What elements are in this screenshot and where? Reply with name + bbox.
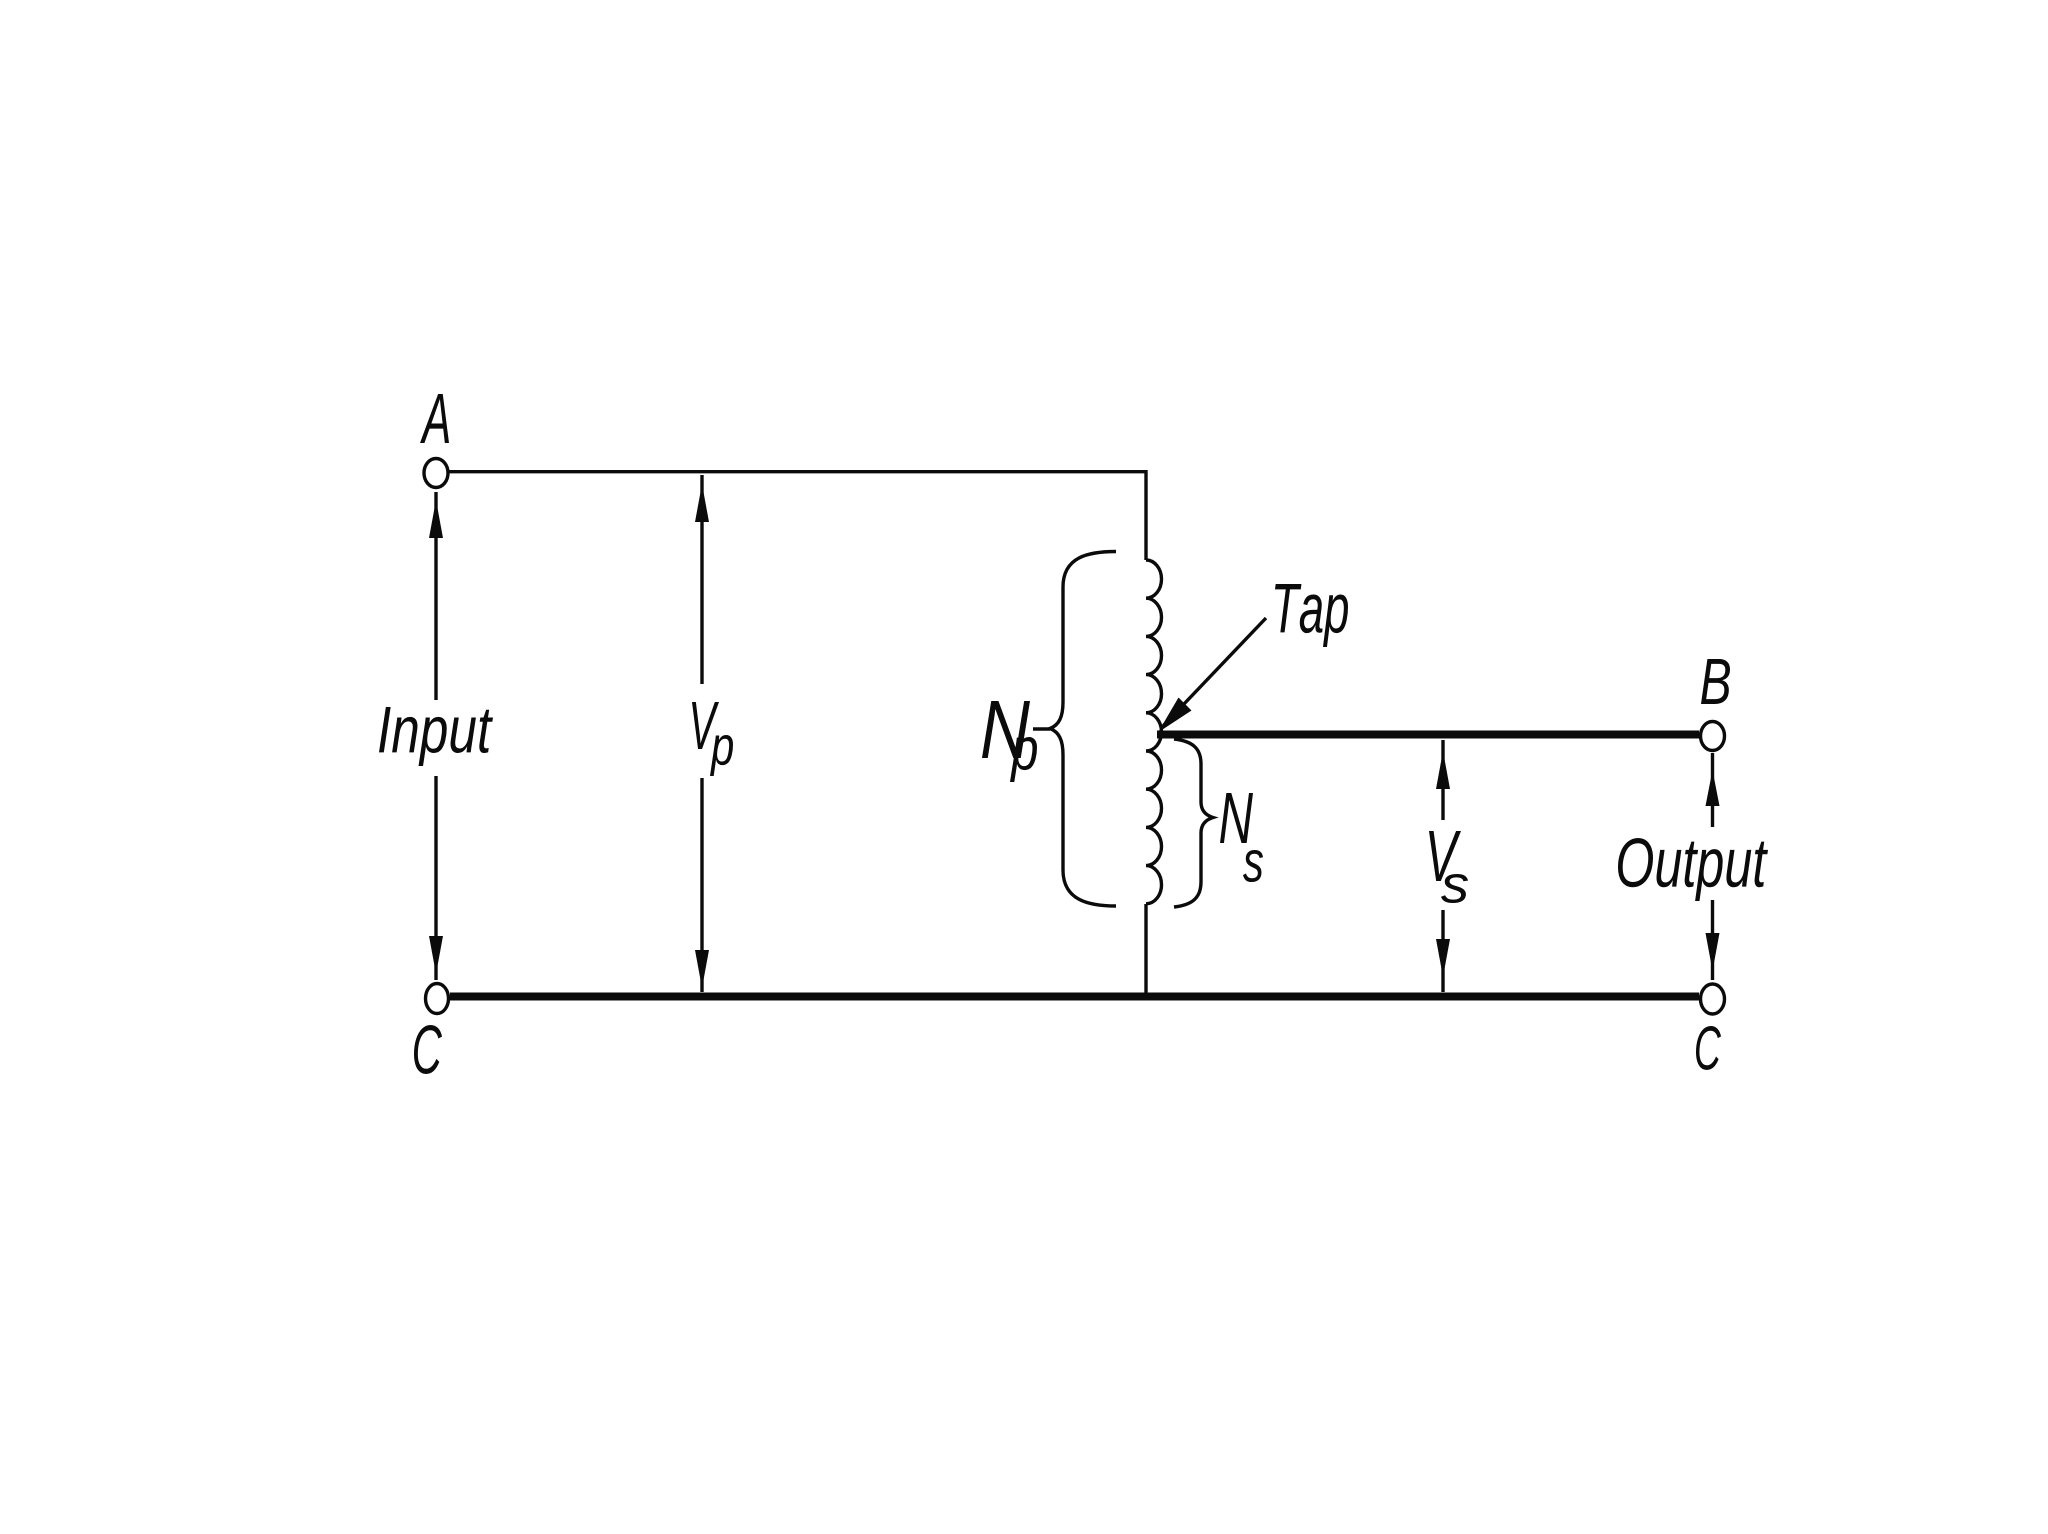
label Input	[379, 707, 493, 766]
label C left	[414, 1025, 442, 1074]
label Vs	[1429, 831, 1461, 881]
tap leader arrow	[1163, 618, 1266, 726]
brace Ns (secondary turns)	[1174, 739, 1213, 907]
node A terminal	[424, 459, 448, 488]
autotransformer winding L1	[1146, 560, 1162, 904]
label Vp	[692, 702, 719, 749]
label Tap	[1275, 584, 1348, 647]
label Output	[1618, 838, 1768, 901]
Input dimension arrow	[434, 492, 437, 700]
label Np	[982, 701, 1030, 758]
bottom bus wire C to C (thick)	[450, 993, 1699, 1001]
node B terminal	[1701, 722, 1725, 751]
label A	[420, 394, 449, 443]
label B	[1701, 659, 1730, 704]
node C terminal right	[1701, 984, 1725, 1014]
wire A to winding (top horizontal and corner down)	[449, 472, 1146, 560]
leader Np to brace	[1033, 727, 1050, 730]
node C terminal left	[426, 984, 449, 1014]
label Ns	[1220, 793, 1253, 843]
Vs dimension arrow	[1441, 740, 1444, 820]
brace Np (primary turns)	[1050, 552, 1116, 907]
Vp dimension arrow	[700, 475, 703, 684]
Output dimension arrow	[1711, 753, 1714, 827]
wire tap to B (thick)	[1157, 731, 1699, 739]
wire winding bottom to C bus	[1144, 904, 1147, 995]
label C right	[1696, 1026, 1721, 1070]
